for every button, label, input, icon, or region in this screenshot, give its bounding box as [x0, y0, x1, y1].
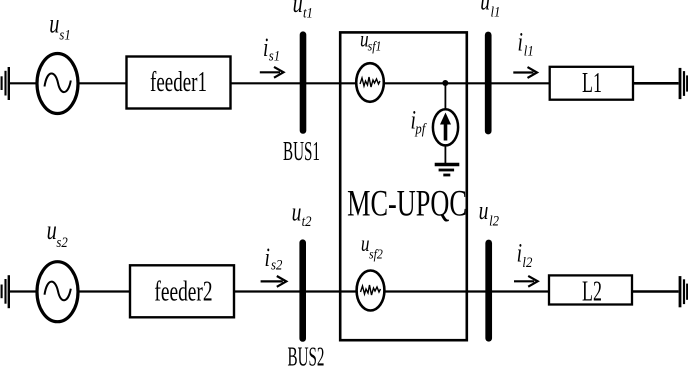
svg-text:u: u	[47, 216, 57, 245]
svg-text:l2: l2	[522, 255, 532, 271]
svg-text:s2: s2	[271, 258, 282, 274]
svg-text:l2: l2	[489, 214, 499, 230]
svg-text:i: i	[517, 239, 522, 267]
svg-text:s1: s1	[269, 48, 280, 64]
svg-text:s2: s2	[56, 235, 67, 251]
svg-text:i: i	[518, 28, 523, 56]
svg-text:sf2: sf2	[369, 246, 383, 262]
svg-text:i: i	[265, 243, 270, 271]
svg-text:i: i	[263, 34, 268, 62]
svg-text:u: u	[292, 198, 302, 226]
svg-text:u: u	[49, 10, 59, 39]
svg-text:l1: l1	[524, 43, 534, 59]
svg-text:L2: L2	[582, 276, 602, 307]
svg-text:MC-UPQC: MC-UPQC	[347, 182, 467, 224]
svg-text:sf1: sf1	[368, 38, 382, 54]
svg-text:t1: t1	[303, 6, 313, 22]
svg-text:u: u	[479, 196, 489, 224]
svg-text:u: u	[480, 0, 490, 15]
svg-text:s1: s1	[59, 28, 70, 44]
svg-text:l1: l1	[491, 4, 501, 20]
svg-text:feeder2: feeder2	[154, 276, 212, 308]
svg-text:u: u	[293, 0, 303, 19]
svg-text:BUS2: BUS2	[288, 342, 325, 367]
svg-text:t2: t2	[302, 214, 312, 230]
svg-text:feeder1: feeder1	[150, 66, 207, 98]
svg-text:L1: L1	[582, 68, 602, 99]
svg-text:BUS1: BUS1	[283, 137, 320, 167]
